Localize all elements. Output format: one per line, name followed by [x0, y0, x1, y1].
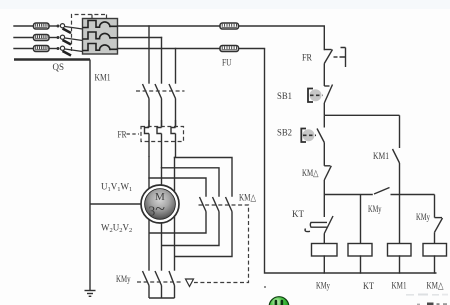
- button SB2 NO start: [317, 115, 324, 166]
- coil KMy: [312, 244, 338, 257]
- wire motor frame to earth rail: [90, 203, 141, 205]
- svg-text:FR: FR: [118, 131, 128, 141]
- wire V2 below motor: [174, 216, 176, 270]
- svg-text:KMy: KMy: [116, 275, 131, 285]
- svg-text:SB1: SB1: [277, 92, 292, 102]
- wire L2 supply lead: [14, 37, 34, 39]
- contactor KMy NO contact (horizontal): [374, 188, 435, 195]
- wire W2 below motor: [148, 220, 150, 271]
- wire earth rail: [89, 60, 91, 291]
- svg-text:KMy: KMy: [368, 205, 382, 215]
- time relay KT delayed contact: [305, 195, 333, 244]
- FR heater element pole 3: [171, 120, 176, 158]
- svg-text:W2U2V2: W2U2V2: [101, 223, 132, 235]
- contactor KM-delta contact pole 1: [149, 197, 206, 233]
- FR label leader dashes: [127, 133, 140, 135]
- switch QS pole 1: [57, 24, 83, 33]
- wire W phase to delta column 3: [175, 158, 233, 197]
- fuse FU1 pole 2: [34, 35, 50, 41]
- wire KT coil to rail: [360, 256, 362, 273]
- contactor KMy contact pole 1: [143, 271, 150, 298]
- watermark speck: [264, 286, 266, 288]
- wire L1 supply lead: [14, 25, 34, 27]
- wire drop V phase: [161, 38, 163, 84]
- svg-text:FR: FR: [302, 54, 313, 64]
- switch QS pole 3: [57, 46, 83, 55]
- svg-text:KM1: KM1: [373, 152, 389, 162]
- svg-text:KMy: KMy: [316, 282, 330, 292]
- contactor KM-delta contact pole 3: [175, 197, 233, 257]
- contactor KM1 NO aux contact: [393, 115, 400, 243]
- wire V1 into motor: [161, 168, 163, 185]
- button SB1 NC stop: [324, 85, 332, 116]
- svg-text:KT: KT: [292, 210, 304, 220]
- contactor KMy contact pole 2: [155, 271, 162, 298]
- contactor KM1 main contact pole 1: [143, 84, 150, 128]
- contactor KM-delta contact pole 2: [162, 197, 220, 246]
- wire V phase to delta column 2: [162, 168, 220, 196]
- svg-text:KM△: KM△: [239, 194, 257, 204]
- wire U phase to delta column 1: [149, 178, 206, 196]
- coil KM1: [388, 244, 412, 257]
- contactor KM1 main contact pole 2: [155, 84, 162, 128]
- motor M 3~: [141, 185, 179, 223]
- wire L3 fuse to QS: [50, 48, 58, 50]
- watermark green ball icon: [269, 297, 289, 305]
- QS linkage dashed enclosure: [72, 15, 108, 52]
- watermark bottom-right marks: [406, 294, 448, 305]
- FR thermal release mark: [334, 48, 346, 68]
- coil KT: [348, 244, 372, 257]
- wire L2 fuse to QS: [50, 37, 58, 39]
- wire U2 below motor: [161, 223, 163, 270]
- thermal relay FR enclosure dashed: [141, 127, 184, 142]
- wire drop W phase: [175, 49, 177, 84]
- wire phase bus L3 to control rail corner: [118, 48, 265, 50]
- wire W1 into motor: [174, 158, 176, 192]
- fuse FU upper (control phase 1): [220, 23, 239, 29]
- FR heater element pole 2: [157, 120, 162, 168]
- FR heater element pole 1: [145, 120, 150, 157]
- KM1 linkage dashed: [136, 90, 185, 92]
- contactor KM-delta NC interlock contact: [324, 166, 331, 195]
- node B bus: [324, 194, 373, 196]
- svg-text:KM1: KM1: [392, 282, 407, 292]
- fuse FU1 pole 1: [34, 23, 50, 29]
- star point bus: [149, 297, 175, 299]
- contactor KM1 main contact pole 3: [169, 84, 176, 128]
- contactor KMy NC interlock contact: [435, 195, 443, 244]
- svg-text:QS: QS: [53, 63, 65, 73]
- svg-text:FU: FU: [222, 59, 232, 69]
- breaker block (shaded box with contact pattern): [83, 19, 118, 55]
- wire KMy coil to rail: [323, 256, 325, 273]
- svg-text:U1V1W1: U1V1W1: [101, 182, 132, 194]
- svg-text:KM△: KM△: [427, 282, 445, 292]
- wire KM-delta coil to rail: [434, 256, 436, 273]
- svg-text:SB2: SB2: [277, 129, 292, 139]
- svg-text:KT: KT: [363, 282, 374, 292]
- ground symbol: [85, 291, 96, 297]
- top toolbar strip: [0, 0, 450, 9]
- svg-text:KM△: KM△: [302, 169, 319, 179]
- PE bus (thick): [14, 58, 90, 61]
- wire U1 into motor: [148, 157, 150, 189]
- wire phase bus L2: [118, 37, 162, 39]
- contactor KMy contact pole 3: [169, 271, 175, 298]
- SB2 actuator: [301, 129, 316, 143]
- wire control left rail: [265, 49, 437, 274]
- coil KM-delta: [423, 244, 447, 257]
- node A junction to KM1 branch: [324, 114, 399, 116]
- wire KT coil feed: [360, 195, 362, 244]
- wire KM1 coil to rail: [399, 256, 401, 273]
- wire drop U phase: [148, 26, 150, 83]
- wire L1 fuse to QS: [50, 25, 58, 27]
- fuse FU lower (control phase 3): [220, 46, 239, 52]
- switch QS pole 2: [57, 35, 83, 44]
- delta marker triangle: [186, 279, 194, 287]
- wire phase bus L1 to control corner: [118, 26, 325, 50]
- svg-text:KMy: KMy: [416, 213, 430, 223]
- fuse FU1 pole 3: [34, 46, 50, 52]
- svg-text:KM1: KM1: [95, 74, 111, 84]
- wire L3 supply lead: [14, 48, 34, 50]
- relay FR NC contact: [324, 50, 332, 87]
- KM-delta linkage dashed to delta marker: [194, 205, 249, 283]
- SB1 actuator: [308, 89, 323, 103]
- KMy linkage dashed: [137, 281, 182, 283]
